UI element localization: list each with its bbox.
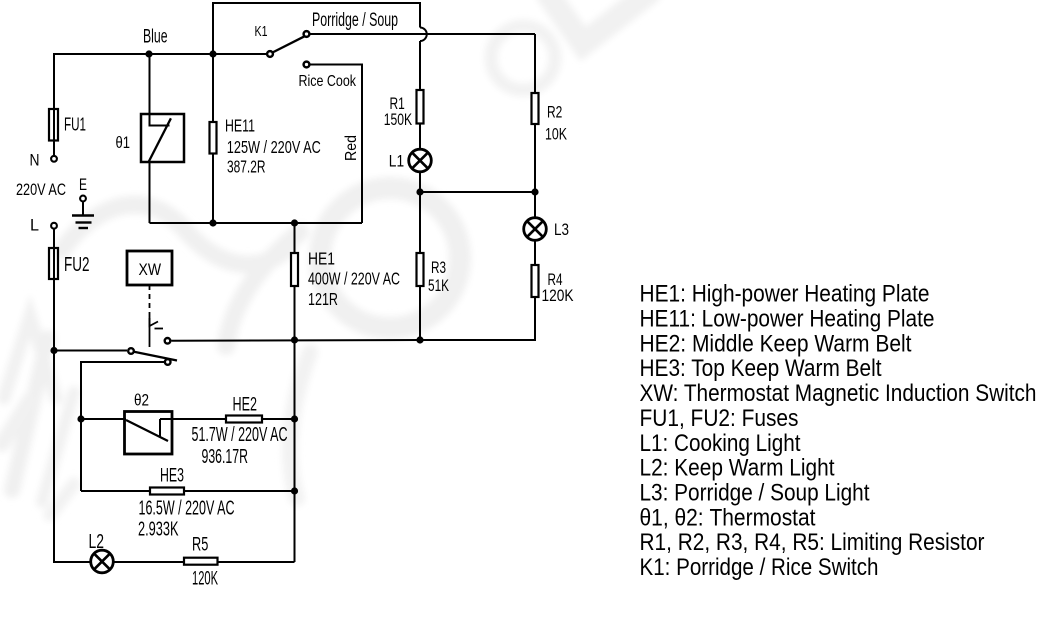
- svg-text:Blue: Blue: [143, 26, 168, 47]
- thermostat theta2 box: [125, 412, 173, 455]
- wire common throw y=350.5: [54, 350, 127, 352]
- wire x=420 branch R1/L1/R3: [419, 41, 421, 90]
- svg-text:K1: K1: [255, 23, 268, 40]
- wire HE11 branch x=213: [212, 54, 214, 122]
- svg-text:R1, R2, R3, R4, R5: Limiting R: R1, R2, R3, R4, R5: Limiting Resistor: [640, 529, 985, 556]
- ground E symbol: [80, 196, 86, 202]
- svg-text:125W / 220V AC: 125W / 220V AC: [227, 137, 321, 157]
- svg-text:HE11: HE11: [225, 115, 255, 135]
- wire keep-warm throw y=362 to left leg x=82: [81, 362, 164, 491]
- wire theta1 bottom lead: [149, 162, 151, 223]
- svg-text:R5: R5: [192, 535, 208, 556]
- box XW: [127, 251, 172, 285]
- svg-text:16.5W / 220V AC: 16.5W / 220V AC: [139, 498, 235, 520]
- node HE11 bottom: [209, 219, 216, 226]
- svg-text:FU1, FU2: Fuses: FU1, FU2: Fuses: [640, 405, 799, 432]
- svg-text:HE3: HE3: [160, 466, 184, 487]
- wire x=535 branch R2/L3/R4: [534, 34, 536, 93]
- wire HE1 branch x=294.5: [294, 223, 296, 253]
- lamp L1: [409, 149, 432, 172]
- svg-text:L3: Porridge / Soup Light: L3: Porridge / Soup Light: [640, 480, 870, 507]
- node R2 mid: [531, 188, 538, 195]
- heater HE1: [291, 253, 298, 286]
- svg-text:150K: 150K: [384, 110, 413, 129]
- wire left rail top segment (L/N rail x=54): [54, 54, 266, 109]
- node R3 bottom: [416, 336, 423, 343]
- contact XW down: [165, 359, 171, 365]
- node HE2 right: [291, 415, 298, 422]
- XW actuator flag: [150, 318, 159, 326]
- contact XW up: [165, 338, 171, 344]
- WATERMARK: [0, 0, 1, 1]
- wire blue-node theta1 top lead: [150, 54, 170, 126]
- svg-text:51K: 51K: [428, 276, 449, 295]
- wire mid join y=192: [420, 191, 535, 193]
- node blue/theta1: [145, 50, 152, 57]
- svg-text:120K: 120K: [542, 286, 575, 305]
- svg-text:121R: 121R: [308, 289, 338, 309]
- dashed actuator line XW: [149, 285, 151, 317]
- svg-text:L: L: [30, 216, 39, 235]
- svg-text:220V AC: 220V AC: [16, 180, 66, 199]
- svg-text:XW: XW: [139, 260, 162, 279]
- contact K1 rice: [304, 62, 310, 68]
- svg-text:FU1: FU1: [64, 114, 86, 135]
- heater HE11: [210, 122, 217, 154]
- contact K1 common: [267, 51, 273, 57]
- thermostat theta1 blade: [148, 118, 171, 162]
- wire rice cook y=64.5 and Red vertical x=362: [311, 65, 363, 224]
- wire switch row y=340: [171, 339, 420, 342]
- thermostat theta2 right lead: [159, 419, 161, 437]
- svg-text:XW: Thermostat Magnetic Induct: XW: Thermostat Magnetic Induction Switch: [640, 380, 1037, 407]
- wire bottom row y=562: [114, 561, 185, 563]
- svg-text:HE1: HE1: [308, 248, 335, 268]
- node theta2 left: [77, 415, 84, 422]
- thermostat theta2 blade: [126, 420, 168, 441]
- svg-text:L1: L1: [389, 151, 404, 170]
- wire XW blade: [134, 352, 177, 361]
- resistor R5: [184, 558, 218, 565]
- wire bottom of top section y=223: [150, 222, 363, 224]
- svg-text:HE1: High-power Heating Plate: HE1: High-power Heating Plate: [640, 281, 930, 308]
- thermostat theta1 box: [141, 114, 184, 162]
- svg-text:10K: 10K: [545, 125, 567, 144]
- svg-text:E: E: [79, 175, 87, 194]
- terminal N: [51, 156, 57, 162]
- svg-text:R3: R3: [431, 258, 446, 277]
- contact XW common: [128, 348, 134, 354]
- heater HE3: [150, 488, 184, 495]
- svg-text:Porridge / Soup: Porridge / Soup: [312, 9, 398, 31]
- svg-text:Rice Cook: Rice Cook: [299, 73, 357, 90]
- svg-text:FU2: FU2: [64, 254, 90, 276]
- svg-text:L3: L3: [554, 220, 569, 239]
- wire top box (K1 frame): [213, 3, 420, 54]
- wire theta2 row y=419: [81, 418, 126, 420]
- node L1 mid: [416, 188, 423, 195]
- heater HE2: [226, 416, 262, 423]
- wire porridge/soup horizontal y=34: [311, 33, 536, 35]
- node left rail switch: [50, 347, 57, 354]
- fuse FU2: [49, 248, 58, 279]
- wire HE3 row y=491: [81, 490, 150, 492]
- resistor R2: [532, 93, 539, 124]
- resistor R4: [532, 265, 539, 297]
- svg-text:L2: L2: [89, 531, 105, 553]
- contact K1 porridge: [304, 31, 310, 37]
- svg-text:L1: Cooking Light: L1: Cooking Light: [640, 430, 801, 457]
- resistor R1: [417, 90, 424, 124]
- svg-text:HE2: Middle Keep Warm Belt: HE2: Middle Keep Warm Belt: [640, 330, 912, 357]
- lamp L3: [524, 218, 547, 241]
- svg-text:51.7W / 220V AC: 51.7W / 220V AC: [192, 424, 288, 446]
- svg-text:HE2: HE2: [233, 395, 258, 416]
- svg-text:2.933K: 2.933K: [138, 519, 179, 541]
- lamp L2: [91, 550, 114, 573]
- svg-text:Red: Red: [343, 135, 360, 161]
- svg-text:θ1: θ1: [116, 133, 131, 152]
- wire left rail middle segments: [53, 141, 55, 156]
- svg-text:N: N: [30, 150, 40, 169]
- svg-text:400W / 220V AC: 400W / 220V AC: [308, 268, 400, 288]
- svg-text:L2: Keep Warm Light: L2: Keep Warm Light: [640, 455, 835, 482]
- svg-text:θ1, θ2: Thermostat: θ1, θ2: Thermostat: [640, 504, 816, 531]
- node HE3 right: [291, 487, 298, 494]
- svg-text:R2: R2: [547, 103, 562, 122]
- svg-text:HE11: Low-power Heating Plate: HE11: Low-power Heating Plate: [640, 306, 935, 333]
- terminal L: [51, 223, 57, 229]
- node HE1 top: [291, 219, 298, 226]
- wire hop over Porridge wire on x=420: [420, 28, 427, 42]
- resistor R3: [417, 253, 424, 286]
- svg-text:K1: Porridge / Rice Switch: K1: Porridge / Rice Switch: [640, 554, 879, 581]
- fuse FU1: [49, 109, 58, 141]
- svg-text:120K: 120K: [192, 568, 218, 590]
- svg-text:θ2: θ2: [134, 391, 149, 410]
- svg-text:HE3: Top Keep Warm Belt: HE3: Top Keep Warm Belt: [640, 355, 882, 382]
- svg-text:936.17R: 936.17R: [202, 446, 249, 468]
- node blue/HE11: [209, 50, 216, 57]
- wire K1 blade: [273, 36, 305, 52]
- svg-text:387.2R: 387.2R: [227, 157, 266, 177]
- node HE1 bottom: [291, 336, 298, 343]
